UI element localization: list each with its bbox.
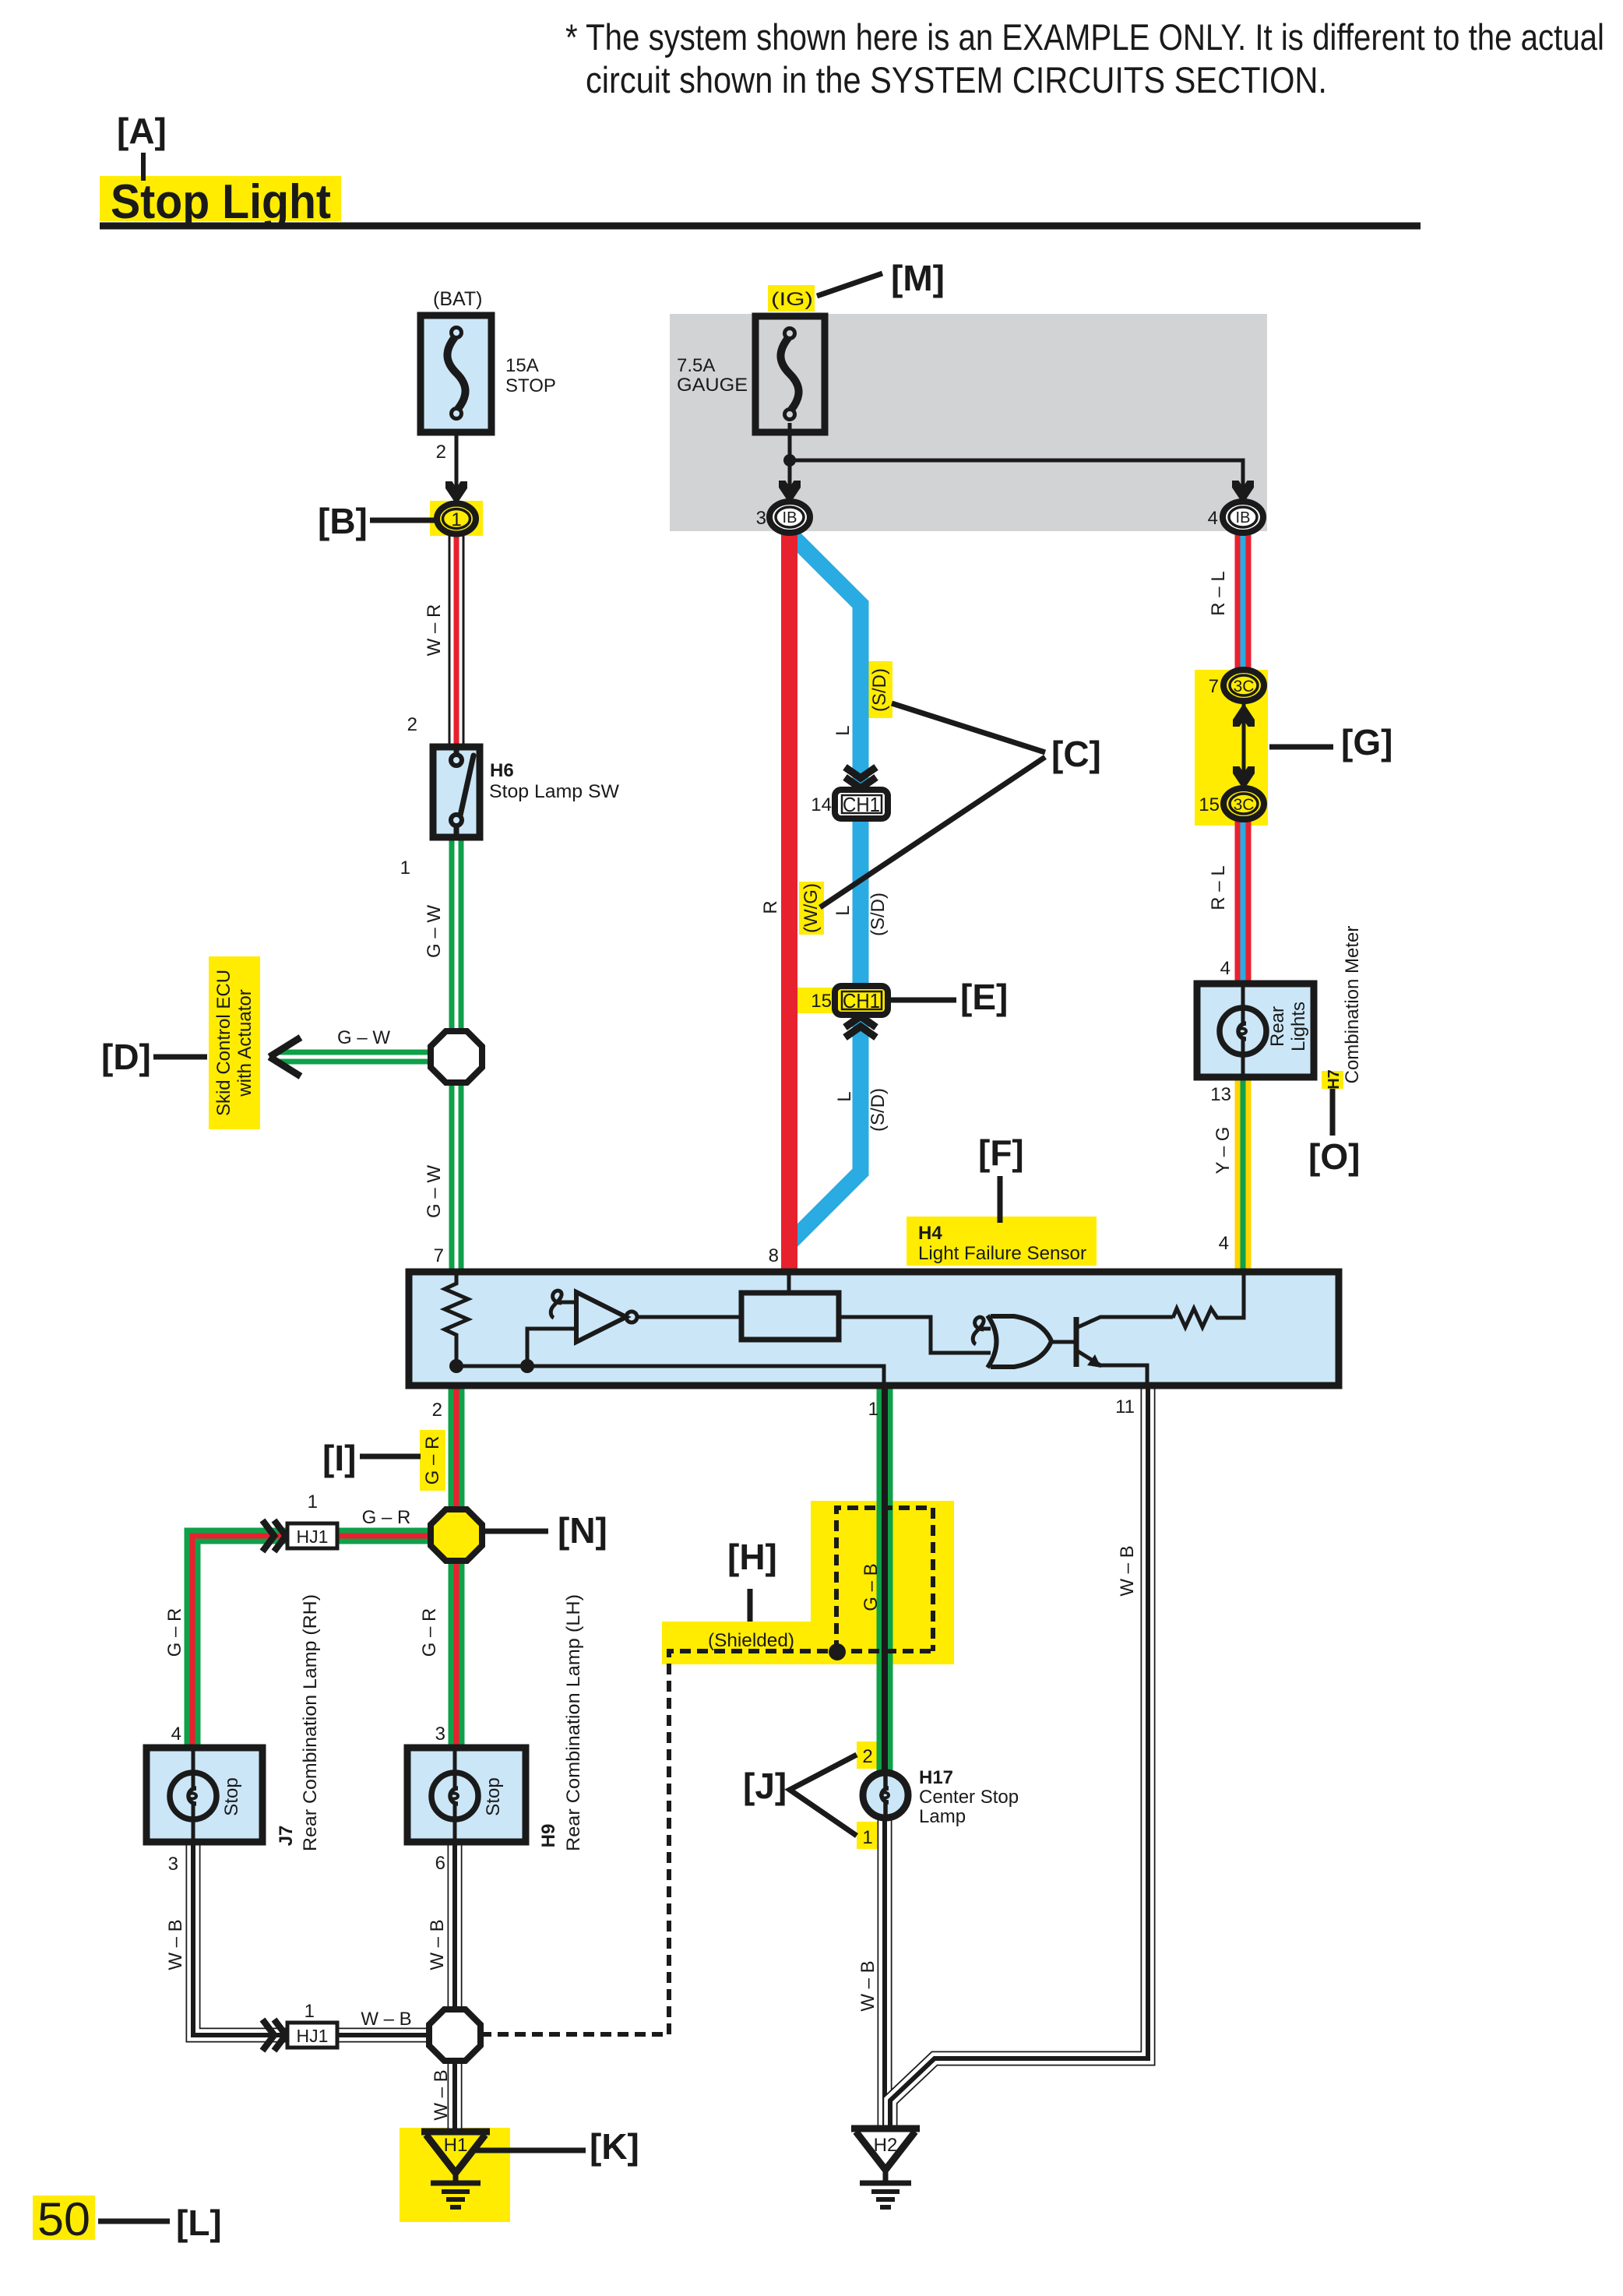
svg-text:2: 2 <box>436 442 446 463</box>
svg-text:L: L <box>834 1091 855 1101</box>
HJ1 connector (lower, W-B) <box>262 2020 337 2051</box>
svg-text:[M]: [M] <box>891 258 945 298</box>
svg-text:[L]: [L] <box>176 2203 222 2243</box>
svg-text:[I]: [I] <box>322 1438 356 1478</box>
svg-text:Light Failure Sensor: Light Failure Sensor <box>918 1243 1086 1264</box>
fuse 15A STOP box <box>421 315 491 432</box>
wire R-L from IB-4 to 3C block <box>1235 517 1252 679</box>
resistor (horizontal) to pin 4 <box>1173 1275 1244 1327</box>
svg-text:Combination Meter: Combination Meter <box>1342 926 1363 1084</box>
svg-text:Y – G: Y – G <box>1213 1127 1234 1174</box>
rear combination lamp J7 box <box>146 1748 262 1842</box>
svg-text:with Actuator: with Actuator <box>234 989 255 1097</box>
wire W-B from H4 pin 11 down, joining ground H2 <box>890 1386 1148 2130</box>
arrow into IB-4 <box>1232 481 1254 504</box>
wire W-B from H9 pin 6 to octagon <box>448 1845 463 2035</box>
svg-text:11: 11 <box>1115 1396 1135 1417</box>
svg-text:Stop: Stop <box>483 1777 504 1815</box>
svg-text:1: 1 <box>308 1491 318 1512</box>
H17 pin 2 highlight <box>857 1741 878 1769</box>
arrow up into 3C-7 <box>1233 703 1255 727</box>
svg-text:W – B: W – B <box>431 2069 452 2120</box>
ground H2 <box>851 2129 920 2207</box>
svg-text:1: 1 <box>868 1399 878 1420</box>
15 CH1 pin highlight <box>797 988 835 1013</box>
line to [B] <box>370 518 436 523</box>
svg-text:7: 7 <box>1209 676 1219 697</box>
HJ1 connector (upper, G-R) <box>262 1520 337 1551</box>
svg-text:14: 14 <box>811 794 832 815</box>
inverter curl input <box>551 1291 576 1318</box>
H17 pin 1 highlight <box>857 1822 878 1849</box>
comparator block <box>741 1293 839 1340</box>
svg-text:7.5A: 7.5A <box>677 355 715 376</box>
svg-text:2: 2 <box>862 1746 872 1767</box>
svg-text:H17: H17 <box>919 1767 953 1788</box>
line to [N] <box>483 1529 548 1534</box>
inverter input link <box>527 1329 576 1366</box>
svg-text:6: 6 <box>435 1853 445 1874</box>
G-R label highlight [I] <box>420 1430 445 1491</box>
connector IB pin3 oval <box>769 502 810 533</box>
link block to pin 8 <box>787 1275 791 1293</box>
svg-text:Stop Lamp SW: Stop Lamp SW <box>489 781 619 802</box>
line to [I] <box>360 1454 421 1460</box>
wire W-B from J7 pin 3 via HJ1 to octagon <box>193 1845 436 2035</box>
connector 3C pin15 oval <box>1223 788 1264 819</box>
wire L (blue, shielded) from IB-3 via CH1 connectors to pin 8 <box>789 533 861 1244</box>
svg-text:[H]: [H] <box>727 1537 777 1577</box>
svg-text:H9: H9 <box>538 1824 559 1848</box>
line to [H] <box>748 1589 753 1622</box>
svg-text:L: L <box>833 725 854 735</box>
connector CH1 pin14 <box>835 790 888 819</box>
svg-text:2: 2 <box>407 714 417 735</box>
wire W-B from octagon to ground H1 <box>448 2035 463 2132</box>
link fuse GAUGE down, branch to IB-3 and IB-4 <box>790 423 1243 497</box>
svg-text:Center Stop: Center Stop <box>919 1787 1019 1808</box>
switch H6 contacts <box>451 746 474 838</box>
svg-text:(S/D): (S/D) <box>869 668 890 712</box>
svg-text:Rear: Rear <box>1267 1006 1288 1047</box>
line to [F] <box>998 1176 1003 1223</box>
svg-text:G – R: G – R <box>362 1507 411 1528</box>
line H7 to [O] <box>1330 1089 1336 1136</box>
svg-text:(IG): (IG) <box>771 289 813 310</box>
lines to [J] <box>790 1755 857 1836</box>
wire W-R from node 1 to stop lamp switch <box>449 519 465 746</box>
svg-text:(Shielded): (Shielded) <box>708 1630 794 1651</box>
svg-text:Lamp: Lamp <box>919 1806 966 1827</box>
svg-text:CH1: CH1 <box>843 989 880 1012</box>
bottom junction octagon <box>429 2009 481 2061</box>
svg-text:(W/G): (W/G) <box>801 883 822 933</box>
connector CH1 pin15 <box>835 986 888 1015</box>
svg-text:15: 15 <box>1199 794 1220 815</box>
wire G-W switch to octagon to H4 pin 7 <box>449 837 464 1271</box>
link OR to transistor base <box>1051 1340 1074 1344</box>
svg-text:[D]: [D] <box>101 1037 151 1077</box>
svg-text:W – B: W – B <box>427 1919 448 1970</box>
svg-text:3: 3 <box>435 1724 445 1745</box>
svg-text:H2: H2 <box>874 2135 898 2156</box>
svg-text:[B]: [B] <box>318 501 368 541</box>
link inverter to block <box>637 1315 741 1319</box>
wire G-W octagon to skid-control arrow <box>274 1050 456 1065</box>
svg-text:(S/D): (S/D) <box>868 1088 889 1132</box>
svg-text:G – R: G – R <box>419 1608 440 1657</box>
connector 3C pin7 oval <box>1223 670 1264 701</box>
svg-text:Rear Combination Lamp (LH): Rear Combination Lamp (LH) <box>563 1594 584 1851</box>
stop lamp switch H6 box <box>433 747 480 837</box>
OR gate curl input <box>973 1317 991 1344</box>
inverter bubble <box>626 1312 637 1322</box>
svg-text:3C: 3C <box>1234 796 1255 814</box>
junction dots on bottom rail <box>449 1359 463 1373</box>
title highlight <box>100 176 341 221</box>
H4 label highlight <box>907 1217 1097 1266</box>
svg-text:3C: 3C <box>1234 678 1255 695</box>
transistor Q1 <box>1074 1317 1079 1367</box>
internal bottom rail to pin 1 <box>456 1366 884 1383</box>
svg-text:8: 8 <box>769 1245 779 1266</box>
svg-text:W – B: W – B <box>165 1919 186 1970</box>
H1 ground highlight <box>400 2128 510 2222</box>
svg-text:STOP: STOP <box>505 375 556 396</box>
link fuse STOP to node 1 <box>455 421 459 498</box>
inverter (comparator) triangle <box>576 1292 626 1342</box>
rear combination lamp H9 box <box>407 1748 526 1842</box>
svg-text:G – W: G – W <box>424 1165 445 1218</box>
node 1 oval [B] <box>437 504 476 534</box>
svg-text:R: R <box>760 900 781 914</box>
svg-text:R – L: R – L <box>1208 865 1229 910</box>
svg-text:Lights: Lights <box>1288 1002 1309 1051</box>
line to [D] <box>153 1055 207 1060</box>
svg-text:3: 3 <box>168 1854 178 1875</box>
wire R from IB-3 to H4 pin 8 <box>781 517 797 1271</box>
wire R-L from 3C block to Rear Lights pin 4 <box>1235 810 1252 983</box>
svg-text:IB: IB <box>783 509 797 526</box>
svg-text:[F]: [F] <box>978 1132 1024 1173</box>
shielded region highlight <box>662 1501 954 1664</box>
rear lights box (combination meter) <box>1197 984 1314 1077</box>
skid control arrow <box>269 1037 301 1076</box>
svg-text:GAUGE: GAUGE <box>677 375 748 396</box>
svg-text:H6: H6 <box>490 760 514 781</box>
svg-text:G – R: G – R <box>422 1436 443 1485</box>
wire W-B from H17 to ground H2 <box>878 1807 892 2130</box>
rear lights bulb <box>1220 984 1266 1077</box>
svg-text:W – B: W – B <box>1117 1545 1138 1596</box>
node B oval highlight <box>430 501 483 536</box>
link between 3C connectors <box>1242 698 1246 791</box>
svg-text:1: 1 <box>400 857 410 879</box>
svg-text:H1: H1 <box>444 2135 468 2156</box>
fuse 7.5A GAUGE symbol <box>780 329 798 420</box>
svg-text:(BAT): (BAT) <box>433 288 482 310</box>
svg-text:J7: J7 <box>276 1826 297 1847</box>
svg-text:Stop: Stop <box>221 1777 242 1815</box>
junction octagon below switch <box>431 1031 482 1083</box>
svg-text:[N]: [N] <box>558 1510 607 1551</box>
arrow into node 1 <box>445 481 467 505</box>
svg-text:50: 50 <box>37 2193 90 2245</box>
H7 label highlight <box>1322 1071 1343 1089</box>
page number 50 highlight <box>33 2196 95 2240</box>
arrow into IB-3 <box>779 481 801 504</box>
svg-text:3: 3 <box>756 508 766 529</box>
svg-text:Rear Combination Lamp (RH): Rear Combination Lamp (RH) <box>300 1594 321 1851</box>
(IG) label highlight <box>768 285 815 312</box>
svg-text:[A]: [A] <box>117 111 167 151</box>
svg-text:1: 1 <box>451 509 461 530</box>
svg-text:[E]: [E] <box>960 977 1008 1017</box>
title rule <box>100 223 1421 230</box>
svg-text:H7: H7 <box>1326 1069 1343 1090</box>
connector IB pin4 oval <box>1223 502 1263 533</box>
wire Y-G from Rear Lights pin 13 to H4 pin 4 <box>1235 1078 1252 1271</box>
ground H1 <box>421 2132 490 2207</box>
svg-text:4: 4 <box>1208 508 1218 529</box>
line to [L] <box>98 2219 170 2224</box>
(W/G) label highlight <box>799 882 824 935</box>
svg-text:H4: H4 <box>918 1223 942 1244</box>
grey junction-block box <box>670 314 1267 531</box>
H4 internal circuit <box>445 1275 1244 1383</box>
H4 light failure sensor box <box>409 1272 1339 1386</box>
svg-text:G – W: G – W <box>424 905 445 958</box>
svg-text:7: 7 <box>434 1245 444 1266</box>
svg-text:[J]: [J] <box>743 1766 787 1806</box>
wire G-R from H4 pin 2 through node N to H9 pin 3 <box>449 1386 465 1748</box>
svg-text:[O]: [O] <box>1308 1136 1360 1177</box>
svg-text:W – B: W – B <box>857 1960 878 2011</box>
arrow down into 3C-15 <box>1233 766 1255 790</box>
skid control ECU highlight <box>209 956 260 1129</box>
svg-text:(S/D): (S/D) <box>868 893 889 936</box>
line to [E] <box>891 998 956 1003</box>
svg-text:W – R: W – R <box>424 604 445 657</box>
svg-text:1: 1 <box>862 1827 872 1848</box>
shield dashed path from octagon up to shield box <box>481 1508 933 2034</box>
svg-text:W – B: W – B <box>361 2009 411 2030</box>
H9 stop bulb <box>431 1748 478 1842</box>
wire G-B from H4 pin 1 to center stop lamp H17 <box>877 1386 893 1784</box>
link block to OR gate <box>839 1317 991 1353</box>
svg-text:2: 2 <box>432 1400 442 1421</box>
svg-text:[C]: [C] <box>1051 734 1101 774</box>
J7 stop bulb <box>170 1748 217 1842</box>
svg-text:CH1: CH1 <box>843 793 880 816</box>
fuse 7.5A GAUGE box <box>755 316 825 432</box>
OR gate <box>988 1315 1051 1368</box>
svg-text:Skid Control ECU: Skid Control ECU <box>213 970 234 1116</box>
svg-text:4: 4 <box>171 1724 181 1745</box>
svg-text:G – W: G – W <box>337 1027 390 1048</box>
chevron arrow up into CH1-15 <box>845 1016 876 1037</box>
svg-text:15A: 15A <box>505 355 539 376</box>
shield junction dot <box>829 1643 846 1660</box>
svg-text:15: 15 <box>811 991 832 1012</box>
svg-text:* The system shown here is an: * The system shown here is an EXAMPLE ON… <box>565 16 1604 58</box>
chevron arrow into CH1-14 <box>845 767 876 788</box>
svg-text:R – L: R – L <box>1208 571 1229 615</box>
svg-text:[K]: [K] <box>590 2126 639 2167</box>
node N octagon (yellow) <box>431 1509 482 1561</box>
(S/D) label highlight <box>867 661 892 718</box>
line to [K] <box>475 2148 586 2153</box>
svg-text:4: 4 <box>1219 1233 1229 1254</box>
center stop lamp H17 bulb <box>863 1773 908 1818</box>
svg-text:circuit shown in the SYSTEM CI: circuit shown in the SYSTEM CIRCUITS SEC… <box>586 59 1327 100</box>
svg-text:1: 1 <box>305 2001 315 2022</box>
wire G-R from node N via HJ1 to J7 pin 4 <box>192 1536 456 1748</box>
lines to [C] <box>820 703 1045 907</box>
3C connector block highlight [G] <box>1195 670 1268 826</box>
svg-text:IB: IB <box>1236 509 1251 526</box>
svg-text:4: 4 <box>1220 958 1230 979</box>
resistor R (vertical) <box>445 1275 468 1366</box>
line to [M] <box>817 273 882 296</box>
svg-text:G – B: G – B <box>861 1563 882 1611</box>
svg-text:G – R: G – R <box>164 1608 185 1657</box>
svg-text:13: 13 <box>1210 1084 1231 1105</box>
line to [G] <box>1269 745 1333 750</box>
svg-text:L: L <box>833 905 854 915</box>
fuse 15A STOP symbol <box>447 328 465 419</box>
svg-text:[G]: [G] <box>1341 722 1392 762</box>
svg-text:Stop Light: Stop Light <box>111 175 331 229</box>
